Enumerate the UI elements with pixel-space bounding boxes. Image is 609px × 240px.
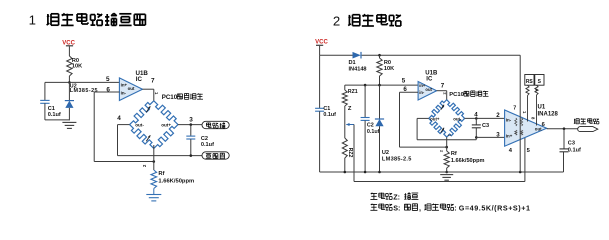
svg-text:PC10: PC10 [449, 92, 464, 98]
svg-text:1: 1 [29, 13, 36, 28]
svg-text:out-: out- [135, 123, 144, 128]
node output cap [563, 127, 566, 130]
svg-text:Rf: Rf [158, 171, 164, 177]
wire feedback in- (circuit 2) [399, 92, 401, 147]
label 电压输出 [574, 119, 576, 124]
node C2 bottom [190, 154, 193, 157]
svg-text:out-: out- [453, 117, 462, 122]
node feedback/Rf (circuit 2) [445, 146, 448, 149]
wire out- to INA in- [465, 117, 505, 119]
strain arrow bottom (circuit 2) [441, 128, 444, 133]
svg-text:out+: out+ [430, 117, 440, 122]
node Rf ground (circuit 2) [445, 171, 448, 174]
svg-text:4: 4 [117, 115, 121, 122]
node feedback/Rf (circuit 1) [153, 160, 156, 163]
wire Rf to ground [153, 189, 155, 195]
node C2 top [190, 123, 193, 126]
capacitor C3 (bridge) [475, 118, 477, 124]
svg-text:U2: U2 [382, 150, 389, 156]
strain arrow bottom (circuit 1) [146, 135, 150, 141]
svg-text:0.1uf: 0.1uf [367, 129, 380, 135]
svg-text:in+: in+ [506, 134, 513, 139]
svg-text:RS: RS [526, 79, 534, 85]
capacitor C2 (circuit 1) [190, 125, 192, 136]
svg-text:out: out [128, 86, 135, 91]
svg-text:in-: in- [121, 90, 127, 95]
wire bridge bottom to Rf (circuit 2) [446, 137, 448, 151]
wire ref node rail [45, 81, 120, 83]
svg-text:,: , [419, 204, 421, 213]
svg-text:0.1uf: 0.1uf [201, 142, 214, 148]
zener U2 LM385-2.5 (circuit 2) [379, 85, 381, 119]
svg-text:Rf: Rf [451, 151, 457, 157]
op-amp U1B (circuit 2) [418, 82, 437, 101]
ground (circuit 2 Rf) [440, 174, 453, 176]
bridge sensor PC10 (circuit 1) [130, 101, 154, 125]
svg-text:3: 3 [189, 116, 193, 123]
svg-text:4: 4 [509, 148, 513, 154]
svg-text:LM385-2.5: LM385-2.5 [382, 157, 412, 163]
node zener top (circuit 2) [378, 84, 381, 87]
strain arrow top (circuit 2) [441, 105, 444, 110]
svg-text:D1: D1 [349, 60, 356, 66]
svg-text:in-: in- [419, 90, 425, 95]
svg-text:C3: C3 [568, 141, 575, 147]
wire INA out [547, 128, 578, 130]
svg-text:5: 5 [106, 76, 110, 83]
svg-text:U1: U1 [538, 105, 546, 111]
svg-text:6: 6 [106, 87, 110, 94]
wire R0 to ref node [68, 76, 70, 82]
potentiometer RZ1 [344, 85, 346, 90]
svg-text:1: 1 [154, 92, 159, 95]
svg-text:1: 1 [448, 134, 453, 137]
note line 1 电位器Z: 调零 [371, 193, 377, 195]
svg-text:PC10: PC10 [162, 94, 178, 101]
node C3 top (bridge cap) [475, 117, 478, 120]
svg-text:7: 7 [151, 77, 155, 84]
svg-text::: : [454, 204, 456, 213]
svg-text:C2: C2 [367, 123, 374, 129]
wire in- (circuit 2) [400, 91, 419, 93]
svg-text:IC: IC [136, 76, 143, 83]
title: section 2 heading 电压输出 [348, 15, 350, 25]
wire out+ to 输出正 [178, 124, 202, 126]
svg-text:in-: in- [506, 117, 512, 122]
svg-text:1.66K/50ppm: 1.66K/50ppm [158, 179, 194, 185]
wire RS to pin 1 [526, 85, 529, 95]
svg-text:7: 7 [513, 105, 516, 111]
svg-text:1: 1 [522, 111, 527, 114]
svg-text:IN4148: IN4148 [349, 66, 367, 72]
svg-text:10K: 10K [72, 64, 82, 70]
svg-text:INA128: INA128 [538, 111, 559, 117]
resistor RS box [525, 75, 534, 86]
svg-text:4: 4 [474, 111, 478, 118]
potentiometer RZ2 [342, 138, 347, 158]
svg-text:0.1uf: 0.1uf [48, 112, 61, 118]
svg-text:C2: C2 [201, 136, 208, 142]
wire feedback in- (circuit 1) [93, 92, 95, 162]
in-amp U1 INA128 [505, 110, 547, 146]
svg-text:S:: S: [393, 204, 400, 213]
capacitor C2 (circuit 2) [364, 85, 366, 117]
wire out+ to INA in+ [417, 117, 429, 119]
note line 2 电位器S: 增益 formula [371, 204, 377, 206]
title: section 1 heading 恒流源发生电路 [47, 14, 49, 25]
wire ground rail (circuit 2) [320, 171, 564, 173]
svg-text:1.66k/50ppm: 1.66k/50ppm [451, 158, 485, 164]
wire pin7 to bridge top (circuit 2) [437, 90, 447, 92]
node ref (circuit 1) [68, 81, 71, 84]
wire VCC down (circuit 2) [319, 46, 321, 55]
capacitor C1 (circuit 1) [44, 82, 46, 100]
wire V+/V- INA [519, 55, 521, 172]
wire VCC top rail [320, 54, 353, 56]
wire VCC to R0 [68, 46, 70, 56]
op-amp U1B (circuit 1) [119, 78, 142, 101]
wire ref rail (circuit 2) [345, 84, 418, 86]
svg-text:2: 2 [142, 164, 147, 167]
wire bridge bottom to Rf [153, 145, 155, 170]
wire wiper/REF rail [354, 181, 525, 183]
svg-text:Z: Z [348, 106, 352, 112]
ground (circuit 1 ref) [62, 121, 76, 123]
svg-text:out+: out+ [161, 123, 171, 128]
wire S to pin 8 [535, 85, 538, 95]
terminal 电压输出 flag [578, 127, 598, 132]
wiper arrow Z [346, 124, 354, 126]
svg-text:RZ2: RZ2 [347, 148, 353, 158]
diode D1 IN4148 [353, 52, 361, 59]
svg-text:out: out [425, 87, 432, 92]
svg-text:8: 8 [531, 117, 536, 120]
svg-text:5: 5 [402, 77, 406, 84]
terminal 输出正 [202, 121, 229, 128]
wire pin7 to bridge top [143, 88, 154, 90]
node V- rail [519, 171, 522, 174]
svg-text:IC: IC [426, 77, 433, 83]
svg-text:RZ1: RZ1 [348, 89, 358, 95]
wire pot middle [344, 106, 346, 138]
svg-text:R0: R0 [384, 60, 391, 66]
resistor R0 (circuit 1) [67, 56, 72, 76]
resistor R0 (circuit 2) [379, 55, 381, 58]
svg-text:2: 2 [496, 112, 500, 119]
resistor Rf (circuit 2) [444, 151, 449, 168]
capacitor C1 (circuit 2) [319, 55, 321, 108]
bridge sensor PC10 (circuit 2) [429, 100, 447, 119]
node pot bottom [344, 171, 347, 174]
svg-text:2: 2 [439, 149, 444, 152]
svg-text:2: 2 [333, 13, 340, 28]
svg-text:C3: C3 [482, 123, 489, 129]
svg-text:in+: in+ [121, 83, 128, 88]
svg-text:Z:: Z: [393, 193, 400, 202]
svg-text:10K: 10K [384, 66, 394, 72]
potentiometer S box [535, 75, 544, 86]
wire in- (circuit 1) [94, 91, 119, 93]
terminal 输出负 [202, 152, 229, 159]
svg-text:0.1uf: 0.1uf [568, 147, 581, 153]
svg-text:0.1uf: 0.1uf [323, 112, 336, 118]
svg-text:3: 3 [496, 131, 500, 138]
node C2 bottom rail [364, 171, 367, 174]
resistor Rf (circuit 1) [151, 170, 157, 189]
svg-text:5: 5 [527, 148, 531, 154]
zener U2 LM385-25 (circuit 1) [68, 82, 70, 100]
svg-text:C1: C1 [323, 106, 330, 112]
capacitor C3 (output) [563, 129, 565, 149]
node zener bottom rail [378, 171, 381, 174]
strain arrow top (circuit 1) [146, 106, 150, 112]
svg-text:G=49.5K/(RS+S)+1: G=49.5K/(RS+S)+1 [459, 204, 531, 213]
node R0 top (circuit 2) [378, 54, 381, 57]
node C2 top (circuit 2) [364, 84, 367, 87]
wire out- to 输出负 [118, 124, 130, 126]
svg-text:7: 7 [441, 82, 445, 89]
Rg internal resistors [515, 118, 517, 126]
ground (circuit 1 Rf) [146, 194, 161, 196]
node C3 bottom (bridge cap) [475, 136, 478, 139]
